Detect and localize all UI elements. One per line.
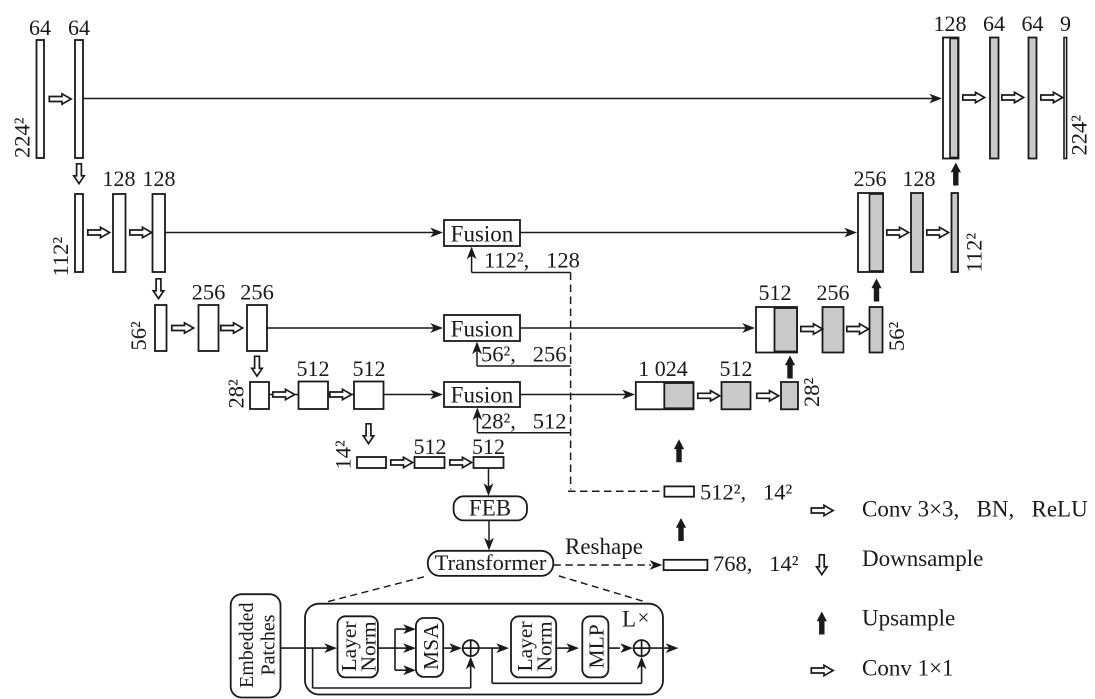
svg-text:64: 64 (29, 15, 51, 40)
svg-text:768, 14²: 768, 14² (713, 551, 799, 576)
svg-text:112², 128: 112², 128 (484, 248, 580, 273)
svg-text:128: 128 (103, 166, 136, 191)
svg-text:512: 512 (472, 434, 505, 459)
svg-text:Embedded: Embedded (236, 602, 258, 688)
svg-text:Reshape: Reshape (565, 534, 643, 559)
svg-text:Fusion: Fusion (451, 317, 514, 342)
svg-text:112²: 112² (962, 233, 987, 273)
svg-text:14²: 14² (331, 440, 356, 470)
svg-text:Transformer: Transformer (435, 550, 547, 575)
svg-text:128: 128 (934, 11, 967, 36)
svg-text:56²: 56² (126, 321, 151, 351)
svg-text:MSA: MSA (419, 623, 443, 670)
svg-text:256: 256 (192, 280, 226, 305)
svg-text:L: L (622, 607, 636, 632)
svg-text:Upsample: Upsample (862, 606, 955, 631)
svg-text:64: 64 (983, 11, 1005, 36)
svg-text:Downsample: Downsample (862, 546, 983, 571)
svg-text:64: 64 (1022, 11, 1044, 36)
svg-text:112²: 112² (48, 237, 73, 277)
svg-text:28², 512: 28², 512 (481, 409, 567, 434)
svg-text:512: 512 (414, 434, 447, 459)
svg-text:1 024: 1 024 (638, 356, 688, 381)
svg-text:Conv 3×3, BN, ReLU: Conv 3×3, BN, ReLU (862, 497, 1088, 522)
svg-text:56²: 56² (884, 322, 909, 352)
svg-text:Fusion: Fusion (451, 383, 514, 408)
svg-text:224²: 224² (1067, 115, 1092, 156)
svg-text:224²: 224² (10, 117, 35, 158)
svg-text:512: 512 (759, 280, 792, 305)
svg-text:128: 128 (903, 166, 936, 191)
svg-text:512: 512 (353, 356, 386, 381)
svg-text:MLP: MLP (585, 624, 609, 668)
svg-text:64: 64 (68, 15, 90, 40)
svg-text:28²: 28² (224, 379, 249, 409)
svg-text:256: 256 (854, 166, 887, 191)
svg-text:FEB: FEB (469, 496, 511, 521)
svg-text:Patches: Patches (258, 614, 280, 675)
svg-text:56², 256: 56², 256 (481, 342, 567, 367)
svg-text:9: 9 (1060, 11, 1071, 36)
svg-text:Fusion: Fusion (451, 222, 514, 247)
svg-text:256: 256 (817, 280, 850, 305)
svg-text:128: 128 (143, 166, 176, 191)
svg-text:Norm: Norm (533, 621, 557, 671)
svg-text:×: × (638, 606, 650, 630)
svg-text:512: 512 (297, 356, 330, 381)
svg-text:512², 14²: 512², 14² (700, 480, 792, 505)
svg-text:Conv 1×1: Conv 1×1 (862, 656, 954, 681)
svg-text:Norm: Norm (357, 621, 381, 671)
svg-text:256: 256 (240, 280, 274, 305)
svg-text:512: 512 (720, 356, 753, 381)
svg-text:28²: 28² (799, 378, 824, 408)
